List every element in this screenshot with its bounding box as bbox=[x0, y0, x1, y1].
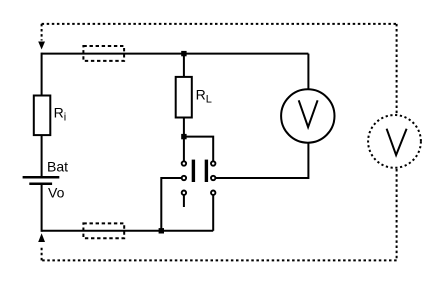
svg-text:Vo: Vo bbox=[48, 185, 65, 201]
svg-text:Bat: Bat bbox=[47, 159, 68, 175]
